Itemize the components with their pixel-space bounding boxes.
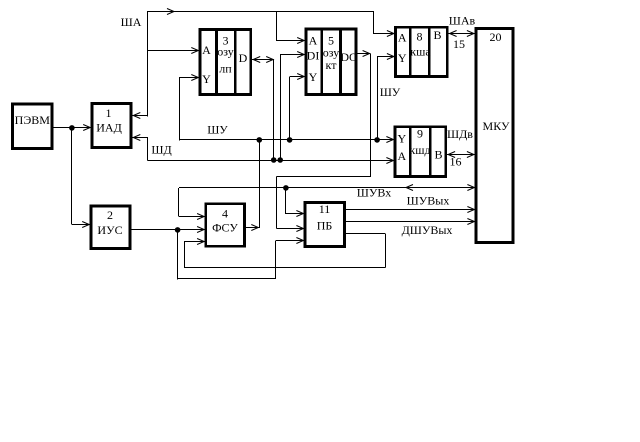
svg-text:A: A	[398, 31, 407, 45]
svg-text:ШУ: ШУ	[380, 85, 401, 99]
svg-text:ПБ: ПБ	[317, 219, 333, 233]
svg-text:кшд: кшд	[409, 143, 430, 157]
svg-text:МКУ: МКУ	[483, 119, 510, 133]
svg-text:8: 8	[417, 29, 423, 43]
svg-text:16: 16	[450, 155, 462, 169]
svg-text:A: A	[202, 43, 211, 57]
svg-text:A: A	[309, 33, 318, 47]
svg-text:11: 11	[319, 202, 331, 216]
svg-text:ИУС: ИУС	[97, 223, 122, 237]
svg-text:лп: лп	[219, 62, 232, 76]
svg-text:кша: кша	[410, 45, 431, 59]
svg-text:A: A	[397, 149, 406, 163]
svg-text:ШУ: ШУ	[207, 123, 228, 137]
svg-text:DO: DO	[340, 50, 358, 64]
svg-text:ША: ША	[121, 15, 142, 29]
svg-text:озу: озу	[217, 45, 234, 59]
svg-text:Y: Y	[397, 132, 406, 146]
svg-text:ИАД: ИАД	[96, 121, 122, 135]
svg-text:Y: Y	[398, 51, 407, 65]
svg-text:ФСУ: ФСУ	[212, 221, 238, 235]
svg-text:ШДв: ШДв	[447, 127, 473, 141]
svg-text:B: B	[434, 148, 442, 162]
svg-text:15: 15	[453, 37, 465, 51]
svg-text:4: 4	[222, 207, 228, 221]
svg-text:B: B	[433, 28, 441, 42]
svg-text:1: 1	[106, 106, 112, 120]
svg-text:Y: Y	[309, 70, 318, 84]
svg-text:ШД: ШД	[151, 143, 171, 157]
svg-text:ШУВых: ШУВых	[407, 194, 450, 208]
svg-text:20: 20	[490, 30, 502, 44]
svg-text:ШУВх: ШУВх	[357, 186, 391, 200]
svg-text:DI: DI	[307, 49, 320, 63]
svg-text:ПЭВМ: ПЭВМ	[15, 113, 51, 127]
svg-text:ДШУВых: ДШУВых	[402, 223, 453, 237]
svg-text:ШАв: ШАв	[449, 14, 476, 28]
svg-text:Y: Y	[202, 72, 211, 86]
svg-text:2: 2	[107, 208, 113, 222]
svg-text:D: D	[239, 51, 248, 65]
svg-text:9: 9	[417, 127, 423, 141]
svg-text:кт: кт	[326, 58, 338, 72]
